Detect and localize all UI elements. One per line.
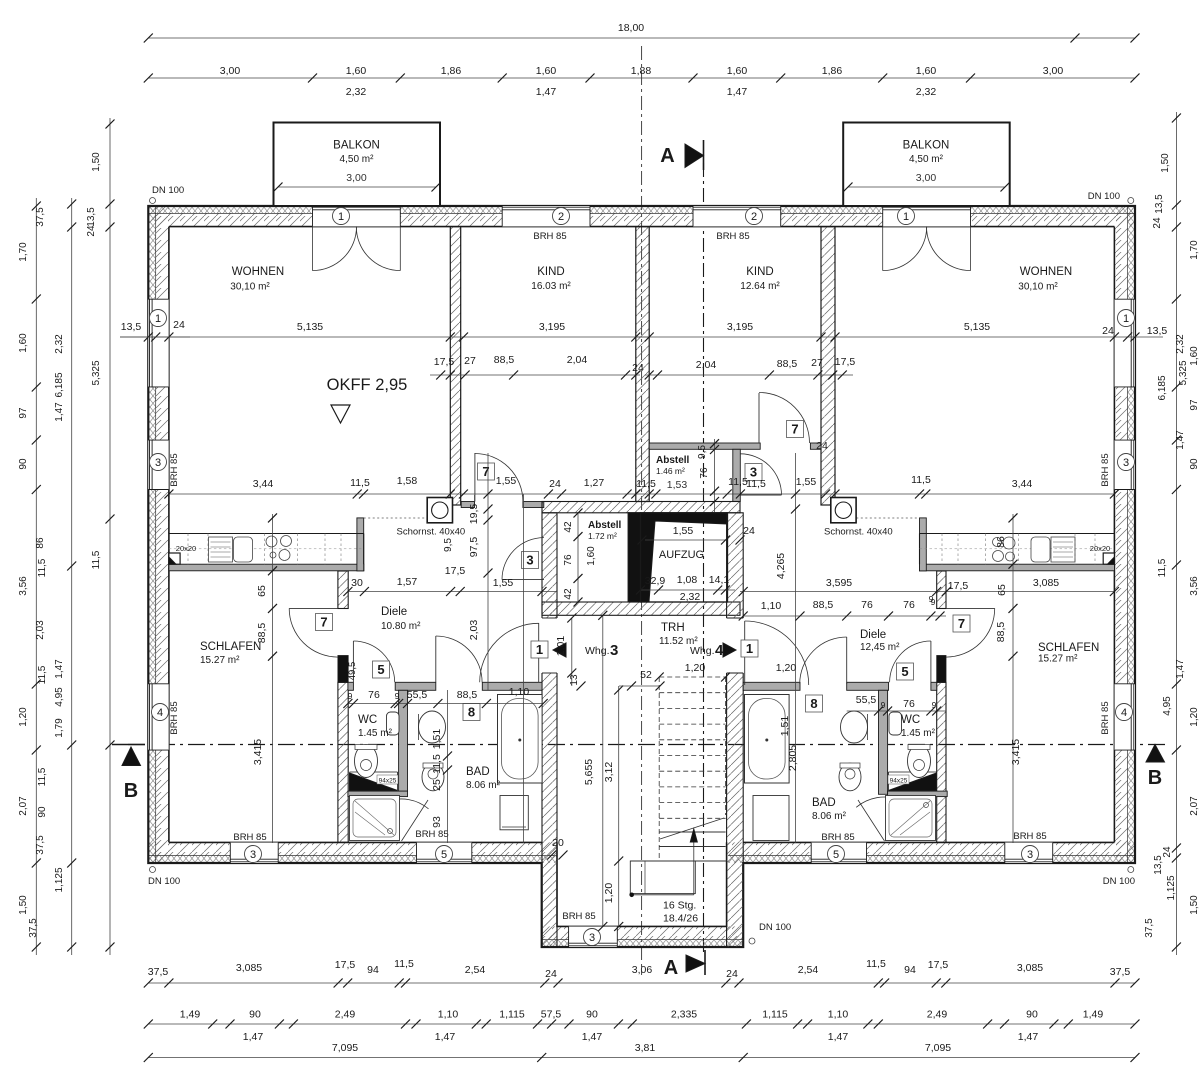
svg-text:11,5: 11,5	[350, 477, 370, 489]
svg-text:11,5: 11,5	[728, 476, 748, 488]
svg-text:94: 94	[367, 964, 379, 976]
svg-text:11,5: 11,5	[866, 958, 886, 970]
svg-text:1,125: 1,125	[54, 867, 65, 892]
svg-text:3,085: 3,085	[1033, 577, 1059, 589]
Diele-right dim row y=616	[743, 615, 946, 617]
svg-text:1,10: 1,10	[509, 686, 530, 698]
door number 7 SCHLAFEN-left	[316, 614, 333, 631]
svg-text:2,04: 2,04	[696, 359, 717, 371]
kitchen wall left (gray) below counter	[169, 564, 364, 571]
bottom wall window bad-right (5)	[811, 842, 866, 863]
vertical chain BAD-left	[447, 690, 449, 843]
top dim row 1 overall 18,00	[148, 37, 1135, 39]
shower door left	[387, 799, 428, 809]
toilet BAD-left	[422, 763, 444, 791]
svg-text:1,10: 1,10	[438, 1009, 459, 1021]
svg-text:88,5: 88,5	[494, 354, 515, 366]
interior dim line y=494 right flat	[649, 493, 1114, 495]
svg-text:8.06 m²: 8.06 m²	[466, 780, 501, 791]
svg-text:11,5: 11,5	[1157, 558, 1168, 577]
toilet WC-left	[355, 745, 378, 778]
svg-text:1,60: 1,60	[18, 333, 29, 353]
svg-text:10.80 m²: 10.80 m²	[381, 621, 421, 632]
svg-text:42: 42	[563, 521, 574, 533]
opening number 3 bay	[584, 929, 601, 946]
bathtub right	[745, 695, 790, 784]
balcony right door swing	[882, 227, 884, 271]
exterior outline inner faces left/right	[168, 227, 170, 843]
svg-text:3,195: 3,195	[539, 321, 565, 333]
svg-text:7,095: 7,095	[332, 1042, 358, 1054]
svg-text:1,50: 1,50	[91, 152, 102, 172]
svg-text:16 Stg.: 16 Stg.	[663, 900, 696, 912]
door number 3 Abstell-right	[745, 464, 762, 481]
svg-text:4: 4	[157, 707, 163, 719]
svg-text:52: 52	[640, 669, 652, 681]
svg-text:1,49: 1,49	[180, 1009, 201, 1021]
svg-text:4,95: 4,95	[1162, 696, 1173, 716]
svg-text:65: 65	[996, 584, 1008, 596]
svg-text:2,03: 2,03	[468, 620, 480, 641]
svg-text:55,5: 55,5	[407, 689, 428, 701]
svg-text:1,50: 1,50	[1160, 153, 1171, 173]
wall KIND/WOHNEN right	[821, 227, 835, 505]
svg-text:BRH 85: BRH 85	[1013, 831, 1046, 842]
svg-text:9: 9	[348, 691, 353, 701]
svg-text:KIND: KIND	[746, 266, 773, 278]
svg-text:90: 90	[586, 1009, 598, 1021]
wall Diele/SCHLAFEN left upper	[338, 571, 348, 609]
svg-text:BRH 85: BRH 85	[415, 829, 448, 840]
svg-text:BRH 85: BRH 85	[233, 832, 266, 843]
svg-text:90: 90	[1026, 1009, 1038, 1021]
opening number 2 top-right	[746, 208, 763, 225]
stair bay inner outline	[557, 842, 727, 926]
balcony right	[843, 123, 1010, 207]
bath top dims left y=703	[348, 703, 543, 705]
svg-text:17,5: 17,5	[948, 580, 969, 592]
vertical chain x=488 corridor-left	[487, 453, 489, 690]
svg-text:24: 24	[743, 525, 755, 537]
svg-text:2,32: 2,32	[680, 591, 701, 603]
TRH west wall door opening Whg.3	[540, 618, 558, 673]
svg-text:BRH 85: BRH 85	[821, 832, 854, 843]
door number 8 BAD-left	[463, 704, 480, 721]
opening number 2 top-left	[553, 208, 570, 225]
bottom dim row 1	[148, 982, 1135, 984]
svg-text:5,655: 5,655	[583, 759, 595, 785]
toilet BAD-right	[839, 763, 861, 791]
svg-text:7,095: 7,095	[925, 1042, 951, 1054]
svg-text:4: 4	[1121, 707, 1127, 719]
stair break line	[660, 818, 724, 839]
exterior wall bottom band right part	[728, 856, 1135, 863]
svg-text:11,5: 11,5	[431, 754, 443, 774]
building centre axis line	[641, 46, 643, 975]
svg-text:18,00: 18,00	[618, 22, 644, 34]
svg-text:5,135: 5,135	[964, 321, 990, 333]
svg-text:3,085: 3,085	[236, 962, 262, 974]
svg-text:1,60: 1,60	[727, 65, 748, 77]
svg-text:13: 13	[569, 674, 580, 686]
WC-left bottom gray wall	[348, 791, 408, 797]
svg-text:15.27 m²: 15.27 m²	[1038, 654, 1078, 665]
label DN 100 bay	[749, 938, 755, 944]
lift shaft black poche	[628, 513, 727, 602]
svg-text:2,32: 2,32	[54, 334, 65, 354]
chimney Schornst. 40x40 left	[427, 498, 452, 523]
svg-text:WC: WC	[358, 714, 377, 726]
svg-text:3,44: 3,44	[1012, 478, 1033, 490]
svg-text:1,60: 1,60	[536, 65, 557, 77]
bottom dim row 3 totals	[148, 1057, 1135, 1059]
svg-text:1,20: 1,20	[685, 662, 706, 674]
svg-text:49,5: 49,5	[347, 662, 358, 681]
opening number 3 right wall	[1118, 454, 1135, 471]
svg-text:1,47: 1,47	[1018, 1031, 1039, 1043]
svg-text:1,47: 1,47	[243, 1031, 264, 1043]
window 3 top KIND right	[693, 206, 781, 227]
svg-text:1,70: 1,70	[18, 242, 29, 262]
svg-text:12,45 m²: 12,45 m²	[860, 642, 900, 653]
svg-text:16.03 m²: 16.03 m²	[531, 281, 571, 292]
exterior wall top band	[148, 206, 1135, 213]
opening number 1 top-right	[898, 208, 915, 225]
svg-text:WOHNEN: WOHNEN	[232, 266, 284, 278]
label Whg.3 with arrow	[553, 643, 566, 657]
label DN 100 bottom-left	[150, 867, 156, 873]
svg-text:2,805: 2,805	[787, 745, 799, 771]
svg-text:3,415: 3,415	[1010, 739, 1022, 765]
wall Diele/SCHLAFEN left lower black piece	[338, 656, 348, 683]
door number 8 BAD-right	[806, 695, 823, 712]
svg-text:3: 3	[526, 553, 533, 568]
right wall window mid (3)	[1114, 440, 1135, 489]
svg-text:3,595: 3,595	[826, 577, 852, 589]
wall Diele/SCHLAFEN right upper	[937, 571, 946, 609]
svg-text:88,5: 88,5	[256, 623, 268, 644]
opening number 3 left wall	[150, 454, 167, 471]
gray wall Diele/bath left with door openings	[348, 682, 354, 690]
window 2 top KIND left	[502, 206, 590, 227]
svg-text:1,60: 1,60	[1189, 346, 1200, 366]
duct black wedge WC-right 94x25	[889, 773, 937, 791]
svg-text:17,5: 17,5	[928, 959, 949, 971]
svg-text:1,49: 1,49	[1083, 1009, 1104, 1021]
svg-text:5,325: 5,325	[1178, 360, 1189, 385]
kitchen hob right	[993, 538, 1002, 547]
section marker B left	[122, 747, 141, 766]
svg-text:1,55: 1,55	[493, 577, 514, 589]
svg-text:1,60: 1,60	[346, 65, 367, 77]
svg-text:Schornst. 40x40: Schornst. 40x40	[397, 527, 466, 538]
svg-text:1.45 m²: 1.45 m²	[358, 728, 393, 739]
svg-text:1: 1	[536, 642, 543, 657]
svg-text:97: 97	[1189, 399, 1200, 411]
vertical chain x=795 corridor-right	[795, 453, 797, 690]
wall WOHNEN/KIND left	[450, 227, 460, 505]
svg-text:TRH: TRH	[661, 622, 685, 634]
svg-text:97,5: 97,5	[468, 537, 480, 558]
svg-text:BALKON: BALKON	[333, 140, 380, 152]
svg-text:A: A	[664, 957, 678, 979]
svg-text:Whg.: Whg.	[690, 645, 715, 657]
svg-text:2: 2	[558, 211, 564, 223]
svg-text:17,5: 17,5	[434, 356, 455, 368]
section line B-B horizontal	[128, 744, 1170, 746]
svg-text:76: 76	[861, 599, 873, 611]
basin BAD-right	[841, 711, 868, 743]
stair walking line with arrow	[632, 894, 694, 896]
label DN 100 top-right	[1128, 198, 1134, 204]
stair treads upper flight dashed	[659, 676, 725, 678]
svg-text:3,06: 3,06	[632, 964, 653, 976]
svg-text:24: 24	[1102, 325, 1114, 337]
svg-text:3,00: 3,00	[346, 172, 367, 184]
svg-text:Diele: Diele	[381, 606, 407, 618]
door 3 Abstell-right	[740, 494, 781, 496]
svg-text:2,54: 2,54	[465, 964, 486, 976]
svg-text:13,5: 13,5	[1147, 325, 1168, 337]
svg-text:DN 100: DN 100	[152, 185, 184, 196]
svg-text:90: 90	[1189, 458, 1200, 470]
svg-text:76: 76	[903, 698, 915, 710]
opening number 1 top-left	[333, 208, 350, 225]
WC-right bottom gray wall	[888, 791, 948, 797]
lift shaft top wall	[542, 502, 740, 513]
bay bottom window (3)	[569, 926, 618, 947]
opening number 1 left wall	[150, 310, 167, 327]
svg-text:13,5: 13,5	[86, 207, 97, 227]
right wall window lower (4)	[1114, 684, 1135, 750]
kitchen wall right (gray) below counter	[920, 564, 1115, 571]
svg-text:1,47: 1,47	[1175, 659, 1186, 679]
svg-text:1,47: 1,47	[435, 1031, 456, 1043]
exterior wall bottom band left part	[148, 842, 541, 863]
gray wall WC/BAD left	[399, 690, 408, 791]
svg-text:1.72 m²: 1.72 m²	[588, 531, 617, 541]
svg-text:8: 8	[810, 696, 817, 711]
svg-text:1,20: 1,20	[603, 883, 615, 904]
left margin small wall dim 13,5/24 at window1	[120, 336, 190, 338]
svg-text:SCHLAFEN: SCHLAFEN	[200, 641, 261, 653]
svg-text:1: 1	[1123, 313, 1129, 325]
svg-text:4,50 m²: 4,50 m²	[909, 154, 944, 165]
svg-text:1,10: 1,10	[828, 1009, 849, 1021]
svg-text:Schornst. 40x40: Schornst. 40x40	[824, 527, 893, 538]
svg-text:88,5: 88,5	[777, 358, 798, 370]
wall SCHLAFEN/WC left	[338, 682, 348, 842]
kitchen wall right vertical return	[920, 518, 927, 571]
svg-text:BRH 85: BRH 85	[1100, 701, 1111, 734]
svg-text:17,5: 17,5	[335, 959, 356, 971]
svg-text:3,44: 3,44	[253, 478, 274, 490]
svg-text:11,5: 11,5	[636, 478, 656, 490]
svg-text:27: 27	[464, 355, 476, 367]
svg-text:DN 100: DN 100	[148, 876, 180, 887]
Abstell-right top wall with door 7 opening	[649, 443, 760, 449]
svg-text:11,5: 11,5	[37, 558, 48, 577]
bottom wall window schlafen-right (3)	[1005, 842, 1053, 863]
svg-text:3,56: 3,56	[18, 576, 29, 596]
svg-text:88,5: 88,5	[995, 622, 1007, 643]
svg-text:1,115: 1,115	[499, 1009, 525, 1021]
vertical chain x=1011 SCHLAFEN-right	[1012, 514, 1014, 843]
interior dim line y=337 left	[120, 336, 648, 338]
svg-text:1,08: 1,08	[677, 574, 698, 586]
svg-text:1.46 m²: 1.46 m²	[656, 466, 685, 476]
svg-text:17,5: 17,5	[445, 565, 466, 577]
gray wall WC/BAD right	[879, 690, 888, 794]
svg-text:11,5: 11,5	[746, 478, 766, 490]
kitchen wall left vertical return	[357, 518, 364, 571]
svg-text:8.06 m²: 8.06 m²	[812, 811, 847, 822]
svg-text:1,47: 1,47	[54, 402, 65, 422]
svg-text:4,50 m²: 4,50 m²	[340, 154, 375, 165]
left margin vertical dim chains	[35, 198, 37, 955]
svg-text:37,5: 37,5	[1144, 918, 1155, 938]
label DN 100 bottom-right	[1128, 867, 1134, 873]
door 3 Abstell-left	[502, 579, 544, 581]
svg-text:3,12: 3,12	[603, 762, 615, 783]
door 7 KIND-left (swing up into KIND)	[474, 453, 476, 502]
svg-text:5: 5	[377, 662, 384, 677]
svg-text:42: 42	[563, 588, 574, 600]
svg-text:3: 3	[1123, 457, 1129, 469]
svg-text:1,47: 1,47	[828, 1031, 849, 1043]
vertical chain x=523 TRH-left side	[523, 494, 525, 843]
svg-text:1,20: 1,20	[18, 707, 29, 727]
svg-text:11,5: 11,5	[911, 474, 931, 486]
svg-text:37,5: 37,5	[35, 207, 46, 227]
svg-text:24: 24	[726, 968, 738, 980]
bathtub left	[498, 695, 543, 784]
svg-text:6,185: 6,185	[1157, 375, 1168, 400]
svg-text:Diele: Diele	[860, 629, 886, 641]
label DN 100 top-left	[150, 198, 156, 204]
svg-text:13,5: 13,5	[121, 321, 142, 333]
svg-text:76: 76	[368, 689, 380, 701]
svg-text:BRH 85: BRH 85	[716, 231, 749, 242]
svg-text:B: B	[1148, 767, 1162, 789]
svg-text:1.45 m²: 1.45 m²	[901, 728, 936, 739]
left wall window upper (1)	[148, 299, 169, 387]
svg-text:BAD: BAD	[466, 766, 490, 778]
TRH east wall	[727, 513, 744, 947]
svg-text:1,10: 1,10	[761, 600, 782, 612]
svg-text:OKFF 2,95: OKFF 2,95	[327, 376, 408, 394]
svg-text:30,10 m²: 30,10 m²	[230, 282, 270, 293]
svg-text:30,10 m²: 30,10 m²	[1018, 282, 1058, 293]
window 1 top-left balcony door	[313, 206, 401, 227]
opening number 4 right wall	[1116, 704, 1133, 721]
door number 3 corridor-left	[522, 552, 539, 569]
svg-text:25: 25	[431, 779, 443, 791]
gray wall Diele/bath right with door openings	[743, 682, 800, 690]
svg-text:93: 93	[431, 816, 443, 828]
svg-text:1,55: 1,55	[796, 476, 817, 488]
exterior outline outer	[148, 206, 1135, 947]
svg-text:WC: WC	[901, 714, 920, 726]
svg-text:1: 1	[155, 313, 161, 325]
dim line y=591 Diele right	[740, 591, 1114, 593]
section line A-A vertical	[703, 163, 705, 952]
shower tray right	[886, 796, 936, 841]
svg-text:94: 94	[904, 964, 916, 976]
20x20 column left	[169, 553, 180, 564]
svg-text:94x25: 94x25	[379, 777, 397, 784]
svg-text:Abstell: Abstell	[656, 455, 690, 466]
door 5 WC-left	[352, 641, 354, 682]
svg-text:18.4/26: 18.4/26	[663, 913, 698, 925]
svg-text:BAD: BAD	[812, 797, 836, 809]
svg-text:14,1: 14,1	[709, 574, 730, 586]
balcony left	[274, 123, 441, 207]
svg-text:3,00: 3,00	[1043, 65, 1064, 77]
svg-text:3,00: 3,00	[220, 65, 241, 77]
exterior wall left band	[148, 206, 155, 863]
svg-text:1,47: 1,47	[536, 86, 557, 98]
svg-text:24: 24	[173, 319, 185, 331]
door 7 SCHLAFEN-right	[946, 607, 995, 609]
svg-text:1,51: 1,51	[779, 716, 791, 737]
svg-text:5: 5	[901, 664, 908, 679]
Abstell-left chain 42/76/42	[577, 513, 579, 602]
svg-text:2,32: 2,32	[346, 86, 367, 98]
svg-text:17,5: 17,5	[835, 356, 856, 368]
svg-text:4,95: 4,95	[54, 687, 65, 707]
svg-text:2,32: 2,32	[1175, 334, 1186, 354]
svg-text:AUFZUG: AUFZUG	[659, 549, 704, 561]
exterior outline inner face bottom	[169, 841, 542, 843]
svg-text:3: 3	[610, 642, 618, 659]
svg-text:6,185: 6,185	[54, 372, 65, 397]
svg-text:76: 76	[563, 554, 574, 566]
svg-text:11,5: 11,5	[37, 665, 48, 684]
svg-text:1,47: 1,47	[727, 86, 748, 98]
wall SCHLAFEN/WC right	[937, 682, 946, 842]
svg-text:86: 86	[995, 536, 1007, 548]
svg-text:5,135: 5,135	[297, 321, 323, 333]
stair dims 52 / 1,20	[619, 685, 660, 687]
svg-text:7: 7	[482, 464, 489, 479]
Abstell-right east wall	[733, 449, 741, 501]
svg-text:88,5: 88,5	[457, 689, 478, 701]
svg-text:4,265: 4,265	[775, 553, 787, 579]
svg-text:11,5: 11,5	[37, 767, 48, 786]
svg-text:1,20: 1,20	[1189, 707, 1200, 727]
vertical chain x=272 SCHLAFEN-left	[272, 514, 274, 843]
svg-text:SCHLAFEN: SCHLAFEN	[1038, 642, 1099, 654]
svg-text:90: 90	[249, 1009, 261, 1021]
kitchen dotted link to chimney right	[856, 517, 919, 519]
kitchen sink left	[234, 537, 253, 562]
svg-text:55,5: 55,5	[856, 694, 877, 706]
svg-text:2,32: 2,32	[916, 86, 937, 98]
svg-text:B: B	[124, 780, 138, 802]
left wall window mid (3)	[148, 440, 169, 489]
svg-text:3,415: 3,415	[252, 739, 264, 765]
svg-text:24: 24	[545, 968, 557, 980]
svg-text:DN 100: DN 100	[759, 922, 791, 933]
20x20 column right	[1103, 553, 1114, 564]
door 7 Abstell-right area (swing into KIND-right)	[758, 393, 760, 443]
TRH east wall door opening Whg.4	[725, 618, 745, 673]
bath top dims right y=711	[847, 710, 946, 712]
svg-text:KIND: KIND	[537, 266, 564, 278]
svg-text:2,04: 2,04	[567, 354, 588, 366]
bottom wall window bad-left (5)	[417, 842, 472, 863]
